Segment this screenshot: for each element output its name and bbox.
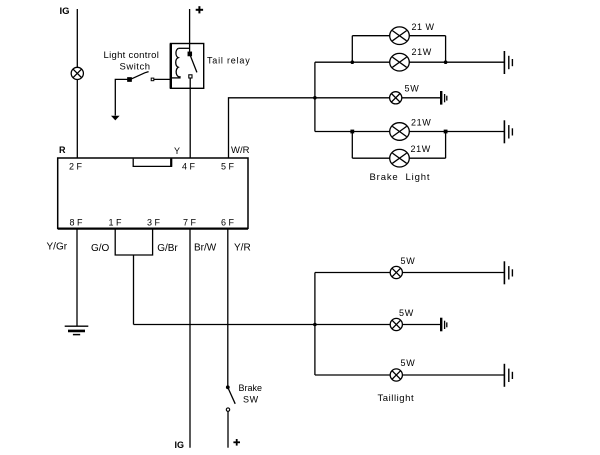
wire taillight branch 3 right to ground: [402, 374, 504, 376]
svg-text:5W: 5W: [401, 358, 416, 368]
svg-text:Br/W: Br/W: [194, 242, 217, 253]
wire switch to ground arrow: [115, 79, 128, 115]
lamp 5W taillight 2 (center): [390, 318, 402, 330]
connector key notch on top edge: [133, 159, 171, 167]
lamp 5W taillight 1: [390, 266, 402, 278]
light control switch arm: [131, 72, 149, 80]
lamp 21W brake 4: [390, 149, 410, 167]
wire brake branch 2 left: [315, 61, 390, 63]
svg-text:3 F: 3 F: [147, 218, 161, 228]
svg-text:2 F: 2 F: [69, 162, 83, 172]
wire taillight branch 3 left: [315, 374, 390, 376]
svg-text:G/O: G/O: [91, 243, 110, 254]
svg-text:21W: 21W: [411, 118, 431, 128]
node junction: [444, 60, 448, 64]
svg-text:4 F: 4 F: [182, 162, 196, 172]
wire taillight branch 2 right to ground: [402, 324, 440, 326]
node junction square: [350, 130, 354, 134]
brake switch bottom terminal: [226, 408, 229, 411]
ground (taillight lower): [504, 364, 512, 387]
svg-text:G/Br: G/Br: [157, 243, 178, 254]
svg-text:7 F: 7 F: [183, 218, 197, 228]
wire IG feed vertical (to lamp, pin 2F): [76, 9, 78, 158]
ground (brake center small): [441, 91, 447, 105]
relay contact arm: [190, 56, 197, 73]
wire taillight branch 1 left: [315, 272, 390, 274]
svg-text:21W: 21W: [411, 144, 431, 154]
light control switch left terminal: [128, 78, 131, 81]
wire brake branch 2 right to ground: [409, 61, 504, 63]
svg-text:21 W: 21 W: [412, 22, 435, 32]
wire + supply to relay: [189, 9, 191, 52]
svg-text:SW: SW: [243, 395, 259, 405]
node W/R bus junction: [313, 96, 317, 100]
lamp 21W brake 2: [390, 53, 410, 71]
lamp 21W brake 3: [390, 123, 410, 141]
wire pin 8F (Y/Gr) down to ground: [76, 229, 78, 327]
wire right connector branch1-2: [445, 36, 447, 63]
svg-text:Taillight: Taillight: [378, 393, 415, 404]
svg-text:Y: Y: [174, 146, 180, 156]
svg-text:21W: 21W: [412, 47, 432, 57]
brake switch top terminal: [226, 385, 230, 389]
lamp 21W brake 1: [390, 27, 410, 45]
ground (earth, Y/Gr): [65, 326, 89, 334]
svg-text:Tail relay: Tail relay: [207, 56, 251, 66]
relay output terminal (to pin 4F): [189, 75, 192, 78]
svg-text:R: R: [59, 145, 66, 155]
svg-text:8 F: 8 F: [70, 218, 84, 228]
lamp 5W taillight 3: [390, 369, 402, 381]
node junction square: [444, 130, 448, 134]
relay K1 box (Tail relay): [171, 44, 204, 89]
brake switch arm: [228, 389, 235, 404]
wire pin 5F (W/R) up and right: [229, 98, 390, 158]
relay contact terminal (top, to +): [188, 52, 191, 55]
svg-text:Y/Gr: Y/Gr: [47, 241, 68, 252]
lamp 5W brake center: [390, 92, 402, 104]
svg-text:W/R: W/R: [231, 145, 250, 156]
ECU box (flasher unit): [58, 158, 248, 228]
wire brake branch 1 left: [352, 35, 389, 37]
wire switch to relay coil: [154, 78, 171, 80]
wire brake branch 1 right: [409, 35, 445, 37]
svg-text:5W: 5W: [405, 84, 420, 94]
wire brake branch 4 left: [315, 131, 390, 133]
label + (top): [196, 6, 203, 13]
svg-text:Brake: Brake: [239, 383, 263, 393]
wire taillight feed horizontal: [134, 324, 391, 326]
svg-text:5W: 5W: [399, 308, 414, 318]
node junction: [351, 60, 355, 64]
wire brake bus vertical: [314, 62, 316, 131]
wire bracket joining pins 1F and 3F: [115, 229, 152, 255]
wire brake branch 4 right to ground: [409, 131, 504, 133]
ground (brake right lower): [504, 120, 512, 143]
svg-text:Light control: Light control: [104, 50, 160, 61]
wire brake branch 5 right: [409, 157, 445, 159]
lamp (indicator on IG line): [71, 67, 83, 79]
wire pin 7F (Br/W) down to IG: [189, 229, 191, 448]
svg-text:1 F: 1 F: [109, 218, 123, 228]
svg-text:5W: 5W: [401, 256, 416, 266]
wire left connector branch4-5: [351, 132, 353, 159]
wire brake switch to +: [227, 411, 229, 447]
svg-text:IG: IG: [60, 6, 70, 17]
label + (bottom): [233, 439, 240, 446]
ground (taillight upper): [504, 261, 512, 284]
ground (taillight center small): [441, 318, 447, 332]
svg-text:IG: IG: [175, 440, 185, 450]
wire brake branch 5 left: [352, 157, 389, 159]
svg-text:Switch: Switch: [120, 62, 151, 73]
ground (brake right upper): [504, 51, 512, 74]
wire stem from bracket down: [133, 255, 135, 325]
wire pin 6F (Y/R) down to brake switch: [227, 229, 229, 387]
wire brake branch 3 right to ground: [402, 97, 441, 99]
wire taillight bus vertical: [314, 273, 316, 376]
node taillight bus junction: [313, 323, 317, 327]
svg-text:6 F: 6 F: [221, 218, 235, 228]
light control switch right terminal: [151, 78, 154, 81]
svg-text:Y/R: Y/R: [234, 242, 251, 253]
wire left connector branch1-2: [351, 36, 353, 63]
relay coil: [171, 48, 190, 78]
svg-text:5 F: 5 F: [221, 162, 235, 172]
wire taillight branch 1 right to ground: [402, 272, 504, 274]
wire right connector branch4-5: [445, 132, 447, 159]
wire relay output to pin 4F (Y): [189, 78, 191, 158]
ground arrow (light control switch): [111, 116, 120, 121]
svg-text:Brake Light: Brake Light: [370, 172, 431, 183]
